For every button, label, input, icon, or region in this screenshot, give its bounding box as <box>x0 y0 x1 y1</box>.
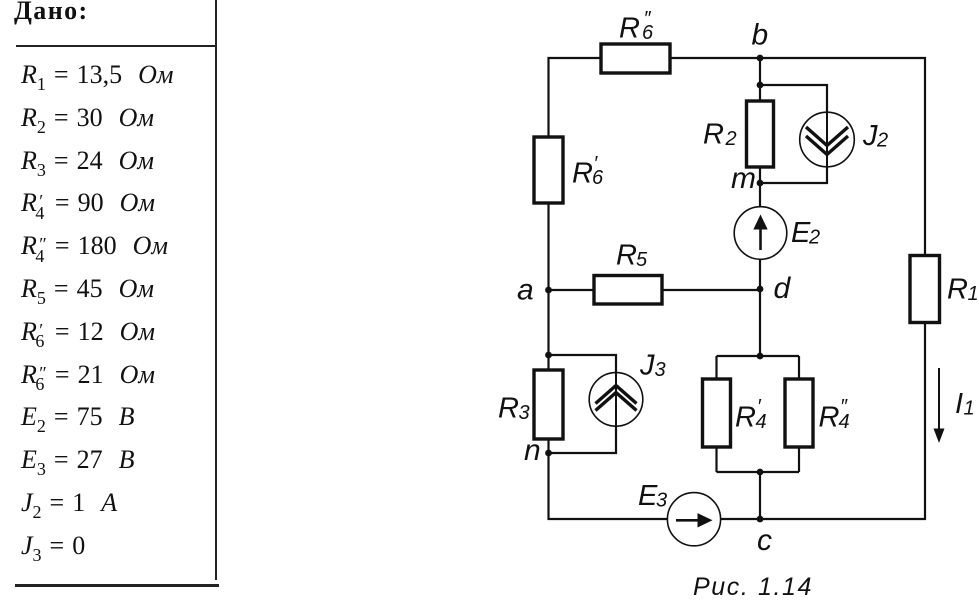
wire: R6'' to node b <box>670 57 760 59</box>
wire: node c left to E3 <box>721 518 760 520</box>
node c <box>757 516 764 523</box>
wire: R4 bottom junction bar <box>717 471 800 473</box>
svg-text:R: R <box>572 158 593 190</box>
node J3 junction <box>545 352 552 359</box>
svg-text:3: 3 <box>656 490 667 512</box>
svg-text:d: d <box>774 272 792 305</box>
label R2 <box>703 119 737 151</box>
current source J3 <box>589 373 643 427</box>
wire: node d down to R4 junction <box>759 289 761 356</box>
svg-text:J: J <box>862 120 878 152</box>
value R1 <box>21 60 173 90</box>
wire: R2 bottom to node m <box>759 167 761 183</box>
wire: R4' bottom drop <box>715 447 717 472</box>
value R2 <box>21 103 154 133</box>
wire: R5 to node d <box>662 289 760 291</box>
wire: R4 bottom junction down to node c <box>759 472 761 519</box>
svg-text:2: 2 <box>876 130 888 152</box>
svg-text:c: c <box>757 524 772 557</box>
svg-text:3: 3 <box>519 402 530 424</box>
wire: right drop to R4'' <box>798 356 800 379</box>
svg-text:R: R <box>498 393 519 425</box>
svg-text:n: n <box>524 434 541 467</box>
svg-text:″: ″ <box>644 8 652 30</box>
label E3 <box>638 480 667 512</box>
value R5 <box>21 274 154 304</box>
wire: R4 top junction bar <box>717 355 800 357</box>
svg-text:″: ″ <box>840 396 848 418</box>
label R3 <box>498 393 530 425</box>
resistor R2 <box>747 101 774 167</box>
svg-text:R: R <box>819 401 840 433</box>
resistor R1 <box>910 256 940 323</box>
label R1 <box>947 274 979 306</box>
wire: J2 circle bottom then left to node m <box>760 166 827 183</box>
node b <box>757 55 764 62</box>
resistor R3 <box>534 370 563 439</box>
voltage source E2 <box>734 207 787 260</box>
value R4'' <box>21 231 168 261</box>
label R5 <box>616 240 648 272</box>
wire: R1 bottom down to bottom-right corner left to node c <box>760 323 925 520</box>
svg-text:R: R <box>947 274 968 306</box>
label R6'' <box>619 8 654 45</box>
node R4 top junction <box>757 353 764 360</box>
value J3 <box>21 531 85 561</box>
resistor R6'' <box>601 44 670 73</box>
value J2 <box>21 488 117 518</box>
current arrow I1 <box>934 368 945 443</box>
panel top rule <box>16 45 217 47</box>
wire: R4'' bottom drop <box>798 447 800 472</box>
wire: J3 circle bottom then left to node n <box>549 426 617 453</box>
value R4' <box>21 188 155 218</box>
svg-text:J: J <box>639 349 655 381</box>
wire: node b right to top-right corner down to R1 <box>760 58 925 256</box>
svg-text:2: 2 <box>725 128 737 150</box>
svg-text:E: E <box>638 480 658 512</box>
panel right border <box>215 0 218 580</box>
svg-text:I: I <box>955 388 963 420</box>
resistor R4' <box>703 379 731 447</box>
svg-text:m: m <box>731 162 756 195</box>
value E2 <box>21 402 134 432</box>
wire: E2 bottom to node d <box>759 259 761 289</box>
label J3 <box>639 349 666 381</box>
value E3 <box>21 445 134 475</box>
node m <box>757 180 764 187</box>
wire: J3 junction to R3 top <box>547 355 549 370</box>
svg-text:3: 3 <box>655 359 666 381</box>
svg-text:5: 5 <box>636 249 648 271</box>
svg-text:1: 1 <box>968 283 979 305</box>
wire: E3 left to bottom-left corner up to node n <box>549 453 668 519</box>
node a <box>545 287 552 294</box>
label R4'' <box>819 396 850 433</box>
svg-text:R: R <box>735 401 756 433</box>
node R4 bottom junction <box>757 469 764 476</box>
node d <box>757 286 764 293</box>
value R3 <box>21 146 154 176</box>
value R6'' <box>21 360 155 390</box>
panel bottom rule <box>15 584 219 587</box>
svg-text:Рис. 1.14: Рис. 1.14 <box>693 573 813 601</box>
svg-text:R: R <box>616 240 637 272</box>
wire: node b down to R2 top through J2 tap <box>759 58 761 101</box>
wire: node m to E2 top <box>759 183 761 207</box>
data panel header <box>0 0 240 601</box>
resistor R4'' <box>785 379 813 447</box>
wire: R3 bottom to node n <box>547 439 549 453</box>
svg-text:R: R <box>703 119 724 151</box>
node J2 tap <box>757 82 764 89</box>
label I1 <box>955 388 975 420</box>
wire: left drop to R4' <box>715 356 717 379</box>
wire: R6' bottom through node a to J3 junction <box>547 203 549 355</box>
wire: R6' top up to top-left corner then right to R6'' <box>549 58 602 137</box>
wire: J3 junction right then down to circle <box>549 355 617 373</box>
label E2 <box>791 217 820 249</box>
svg-text:2: 2 <box>808 227 820 249</box>
node n <box>545 450 552 457</box>
svg-text:E: E <box>791 217 811 249</box>
voltage source E3 <box>667 493 720 546</box>
wire: J2 tap right then down to circle <box>760 85 827 112</box>
resistor R5 <box>594 276 662 305</box>
svg-text:a: a <box>517 274 534 307</box>
label J2 <box>862 120 888 152</box>
svg-text:1: 1 <box>964 398 975 420</box>
svg-text:b: b <box>752 19 769 52</box>
label R4' <box>735 396 767 433</box>
wire: node a to R5 <box>549 289 595 291</box>
resistor R6' <box>534 137 563 203</box>
label R6' <box>572 153 604 190</box>
current source J2 <box>800 112 855 167</box>
value R6' <box>21 317 155 347</box>
svg-text:R: R <box>619 13 640 45</box>
